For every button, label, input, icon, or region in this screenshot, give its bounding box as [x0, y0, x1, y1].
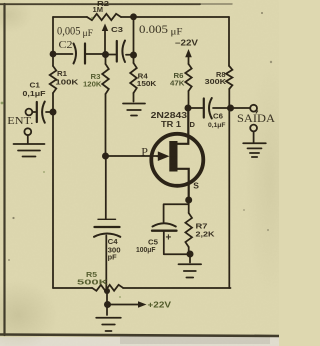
wire ENT to C1	[32, 111, 35, 113]
node bottom bus / rail B	[104, 288, 110, 294]
capacitor C4	[98, 218, 116, 220]
node rail A / C2 row	[50, 51, 57, 58]
resistor R6	[185, 64, 191, 91]
capacitor C6	[203, 99, 205, 118]
node top bus / C3 branch	[130, 13, 137, 20]
wire source node to R7	[188, 199, 190, 213]
resistor R8	[226, 66, 232, 89]
wire R7 bottom to ground node	[189, 247, 190, 263]
TR1 source lead	[177, 169, 189, 199]
node C6 / rail E / SAIDA	[227, 105, 234, 112]
ground below +22V node	[96, 317, 121, 319]
node gate / rail B	[102, 153, 109, 160]
ground below SAIDA	[243, 142, 266, 144]
arrow -22V supply	[188, 57, 190, 65]
terminal SAIDA ground side	[250, 125, 257, 132]
node source / R7 / C5	[185, 197, 192, 204]
node rail A / C1	[50, 109, 57, 116]
capacitor C2	[74, 44, 77, 64]
ground below ENT	[14, 143, 45, 145]
wire SAIDA ground stub	[253, 131, 255, 142]
TR1 channel bar	[169, 141, 177, 172]
wire top bus from node A to rail E	[53, 16, 229, 18]
wire rail B down to C4	[105, 156, 107, 219]
transistor TR1 2N2843 (FET) body circle	[151, 134, 203, 186]
node between C3 and R4	[130, 52, 137, 59]
resistor R4	[133, 55, 135, 102]
resistor R2	[87, 14, 121, 20]
wire rail A (left) vertical	[52, 17, 54, 288]
wire C4 bottom to bottom bus and +22V node	[105, 236, 108, 316]
resistor R7	[185, 213, 192, 247]
wire R6 bottom to drain node	[188, 91, 190, 108]
TR1 drain lead	[177, 109, 189, 144]
wire drain node to C6	[188, 107, 203, 109]
wire ENT ground stub	[27, 135, 29, 143]
ground below R4	[123, 103, 145, 105]
wire C2 row left	[53, 53, 106, 55]
wire source node to C5 top	[164, 204, 189, 222]
capacitor C1	[36, 102, 38, 122]
node B between C2 and C3	[102, 51, 109, 58]
wire C5 bottom to ground node	[164, 231, 190, 255]
wire C3 row right	[106, 54, 134, 56]
wire rail E (right) vertical	[228, 17, 230, 288]
arrow +22V supply	[110, 304, 138, 306]
node +22V tap	[104, 301, 111, 308]
terminal ENT ground side	[24, 128, 31, 135]
terminal ENT	[26, 109, 33, 116]
TR1 gate arrow	[157, 155, 162, 157]
terminal SAIDA	[250, 105, 257, 112]
capacitor C5 (electrolytic)	[153, 223, 176, 226]
resistor R1	[50, 66, 57, 93]
wire gate from rail B to TR1	[106, 155, 161, 157]
capacitor C3	[116, 41, 118, 62]
wire from node between C3 and R4 up to top bus	[133, 17, 135, 55]
wire C6 to node E and SAIDA terminal	[213, 107, 250, 109]
ground below R7/C5	[179, 263, 202, 265]
arrow tap above node B (feedback arrow)	[104, 29, 106, 54]
wire bottom bus	[53, 287, 231, 289]
wire C1 to rail A	[46, 111, 53, 113]
resistor R3	[105, 55, 107, 157]
node R7 / C5 bottom / ground	[187, 251, 194, 258]
node drain / R6 / C6	[185, 105, 192, 112]
resistor R5	[92, 285, 123, 291]
